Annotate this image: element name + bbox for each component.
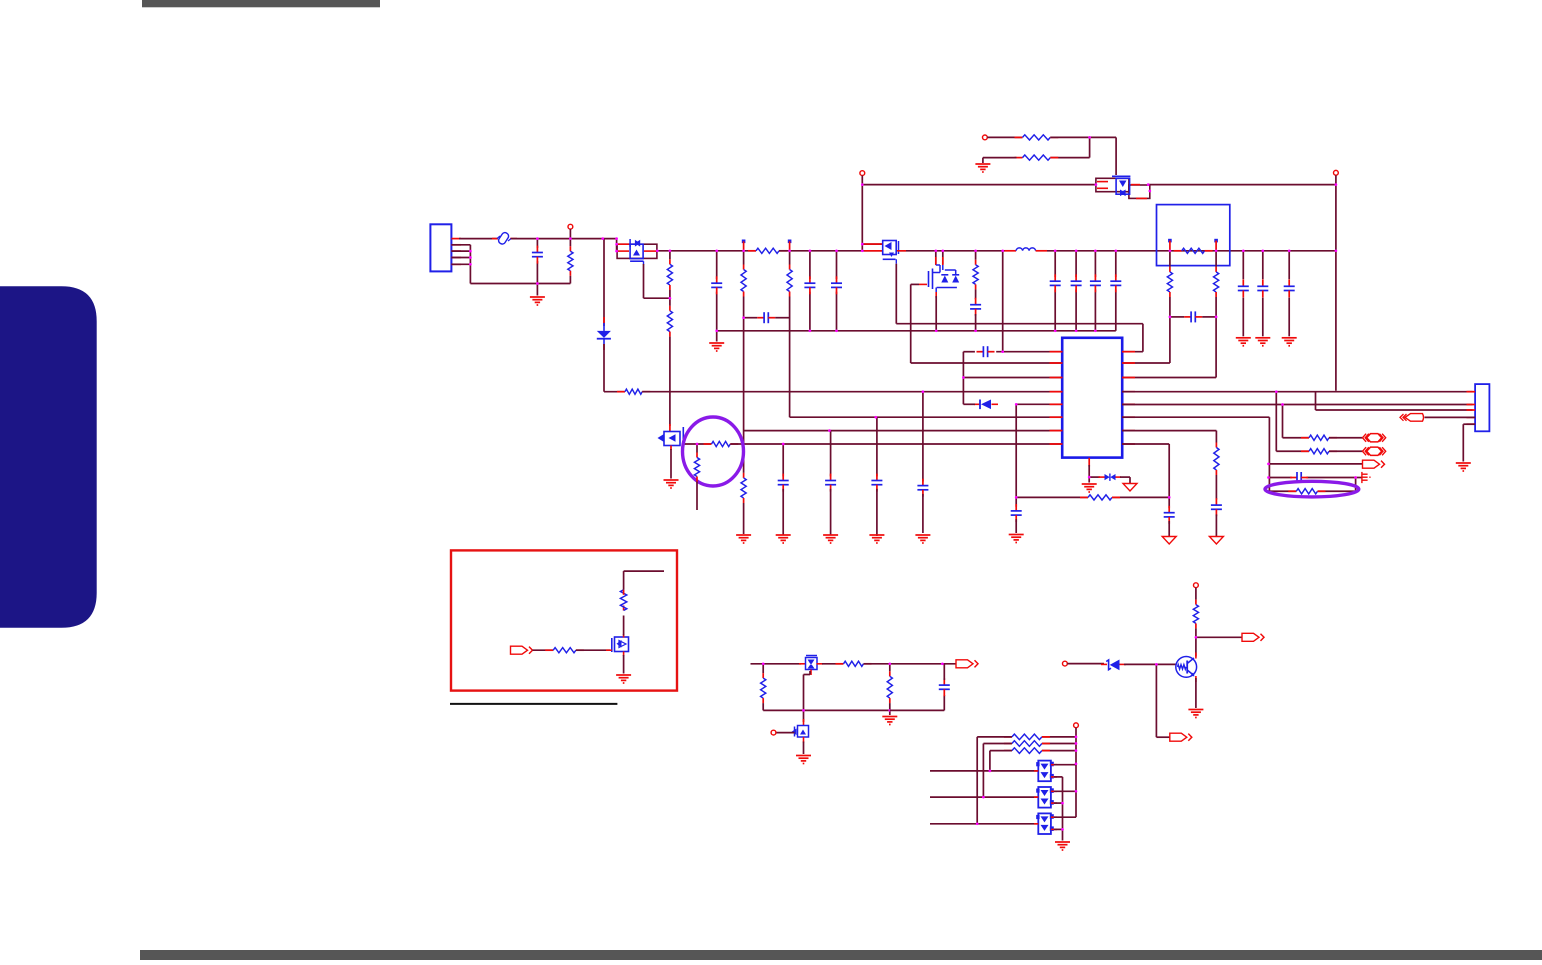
wire C6 gnd <box>876 489 878 536</box>
wire cap row C3 <box>744 317 790 319</box>
wire R25 right <box>1042 736 1076 738</box>
resistor R27 <box>1004 748 1050 754</box>
wire left vert link <box>962 352 964 405</box>
resistor R23 <box>761 673 766 703</box>
wire R30 top <box>624 571 664 590</box>
transistor Q11 dual pack <box>1034 813 1057 834</box>
wire main bus VCC segment C <box>900 250 1005 252</box>
wire R16 link <box>1050 137 1089 157</box>
wire C6 drop <box>876 417 878 476</box>
resistor R19 <box>1288 489 1325 494</box>
resistor R16 <box>1015 155 1059 160</box>
purple highlight circle <box>683 417 744 486</box>
wire zener to base <box>1124 663 1176 665</box>
wire R4net to connector pin1 <box>1122 391 1473 393</box>
wire R10 branch <box>696 444 698 453</box>
node dot B <box>788 240 792 244</box>
wire rail from Q5 <box>682 443 712 445</box>
purple highlight ellipse <box>1265 481 1359 497</box>
terminal circle T2 <box>860 171 865 176</box>
wire C5 drop <box>830 431 832 477</box>
ground at FET block <box>1055 842 1070 850</box>
transistor Q5 <box>658 424 684 450</box>
wire R28 to Q6 <box>1195 628 1197 656</box>
red highlight box <box>451 550 677 690</box>
IC U1 right pin stubs <box>1122 352 1135 444</box>
wire arrow to pin4 <box>1425 416 1476 418</box>
wire R27 left <box>990 750 1012 752</box>
wire C9 drop <box>836 251 838 331</box>
wire bottom return <box>470 283 570 285</box>
wire dotB stub <box>789 251 791 265</box>
ground at Q8 <box>796 756 811 764</box>
wire C4 gnd <box>782 489 784 535</box>
inductor L1 <box>1005 248 1048 251</box>
analog ground tri1 <box>1123 484 1137 492</box>
capacitor C6 <box>871 474 882 492</box>
ground at C6 <box>869 535 884 543</box>
wire J1 pins 2-5 bus <box>451 245 470 284</box>
wire Q8 drain <box>803 710 805 722</box>
terminal circle PWR <box>1074 723 1079 728</box>
wire dotC red stub <box>1169 241 1171 251</box>
ground below Q5 <box>664 480 679 488</box>
wire to IC R2 <box>1122 317 1170 363</box>
resistor R8 <box>741 473 746 503</box>
transistor Q12 N-FET <box>606 634 629 656</box>
ground at C1 <box>530 297 545 305</box>
wire C20 drop <box>1288 251 1290 336</box>
wire C7 gnd <box>922 494 924 533</box>
transistor Q2 P-FET <box>864 241 906 264</box>
wire to zener <box>1067 663 1104 665</box>
wire R15 to Q4 gate <box>1050 137 1116 175</box>
wire R8net right <box>1122 444 1169 497</box>
wire R12 chain down R <box>1215 251 1217 267</box>
wire D1 to VCC3 rail <box>604 344 625 392</box>
wire dotB red stub <box>789 241 791 251</box>
wire branch hexB <box>1276 392 1309 452</box>
capacitor C18 <box>1238 279 1249 297</box>
wire R5net to connector pin2 <box>1122 404 1473 406</box>
connector J2 <box>1475 384 1489 431</box>
wire Q5 source to ground <box>670 449 672 479</box>
capacitor C15 <box>1090 274 1101 292</box>
chassis ground symbol <box>1362 472 1371 483</box>
wire C22 to agnd <box>1215 514 1217 536</box>
capacitor C5 <box>825 474 836 492</box>
transistor Q9 dual pack <box>1034 761 1057 782</box>
junction dots group B <box>696 316 1218 499</box>
wire D2 left <box>963 403 975 405</box>
terminal VIN circle <box>568 224 573 229</box>
wire main bus VCC segment B <box>779 250 862 252</box>
wire Q1 gate <box>644 264 671 298</box>
resistor R17 <box>1301 435 1337 440</box>
wire R11 top <box>975 251 977 260</box>
wire reg input <box>751 663 802 665</box>
wire R24 gnd link <box>889 703 891 715</box>
wire C15 drop <box>1094 251 1096 331</box>
wire Q11 top pin <box>1054 816 1076 818</box>
wire R5 to Q5 <box>669 290 671 426</box>
wire Q3 tap2 <box>942 251 944 265</box>
wire C8 drop <box>809 251 811 331</box>
wire dotA red stub <box>743 241 745 251</box>
ground IC <box>1082 484 1097 492</box>
resistor R9 <box>704 441 739 446</box>
junction dots group C <box>762 390 1357 830</box>
wire R14 to caprow <box>1215 297 1217 317</box>
wire gate rail to IC <box>896 324 1143 352</box>
wire res row <box>1016 496 1169 498</box>
wire bus2 GND-side rail <box>717 330 1116 332</box>
wire main bus VCC segment D <box>1047 250 1336 252</box>
sense module box U2 <box>1157 205 1230 266</box>
capacitor C7 <box>917 479 928 497</box>
wire node FETIN down <box>603 239 605 326</box>
ground at R24 <box>882 717 897 725</box>
transistor Q10 dual pack <box>1034 787 1057 808</box>
node dot C <box>1168 239 1172 243</box>
wire branch pin3 <box>1316 392 1473 410</box>
connector J2 pin stubs <box>1467 392 1476 425</box>
wire C24 top <box>943 664 945 680</box>
wire pullup rail <box>1075 728 1077 818</box>
terminal flag VOUT <box>956 660 978 668</box>
wire gate feed rail <box>862 184 1336 186</box>
fuse F1 <box>492 231 517 245</box>
IC U1 <box>1062 338 1122 458</box>
wire input line 3 <box>930 823 1038 825</box>
resistor R26 <box>1004 741 1050 747</box>
resistor R25 <box>1004 734 1050 740</box>
wire R11 to C10 <box>975 289 977 299</box>
wire input line 1 <box>930 770 1038 772</box>
wire J1 pin1 to fuse <box>459 238 498 240</box>
wire rail AVDD <box>744 430 1063 432</box>
wire T3 down <box>1335 175 1337 391</box>
wire R10 tail <box>696 482 698 511</box>
resistor R3 inline bus <box>748 248 787 253</box>
ground at C20 <box>1282 338 1297 346</box>
ground at C4 <box>776 535 791 543</box>
wire T4 to R15 <box>987 136 1022 138</box>
wire fb node <box>804 709 890 711</box>
capacitor C4 <box>778 474 789 492</box>
zener diode D4 <box>1101 660 1126 671</box>
transistor Q4 dual pack <box>1096 176 1150 198</box>
top header bar <box>142 0 380 7</box>
wire Q7 drain down <box>804 671 811 710</box>
resistor R21 <box>1080 495 1120 500</box>
left side tab <box>0 286 97 627</box>
resistor R11 <box>973 260 978 290</box>
wire C12 gnd <box>1015 519 1017 533</box>
capacitor C20 <box>1284 279 1295 297</box>
resistor R7 <box>787 265 792 297</box>
resistor R18 <box>1301 449 1337 454</box>
capacitor C3 <box>757 312 775 323</box>
wire R13 to caprow <box>1169 297 1171 317</box>
wire C18 drop <box>1242 251 1244 336</box>
transistor Q6 digital <box>1176 653 1197 683</box>
wire Q9 bot pin <box>1054 777 1063 841</box>
wire TVS to agnd <box>1120 477 1130 483</box>
wire R7net right <box>1122 431 1216 443</box>
analog ground tri3 <box>1162 537 1176 545</box>
terminal flag EN <box>511 646 533 654</box>
capacitor C19 <box>1257 279 1268 297</box>
wire dotA stub <box>743 251 745 265</box>
ground at C19 <box>1255 338 1270 346</box>
wire C10 to bus2 <box>975 314 977 331</box>
connector J1 <box>430 224 451 271</box>
wire C4 drop <box>782 444 784 476</box>
wire C23 drop <box>1168 497 1170 508</box>
wire caprow C17 <box>1170 316 1216 318</box>
resistor R13 <box>1167 267 1172 297</box>
wire VCC3 rail <box>642 391 1062 393</box>
wire chassis stub <box>1356 477 1362 479</box>
wire T2 down <box>861 176 863 251</box>
capacitor C9 <box>831 276 842 294</box>
capacitor C21 <box>1290 472 1308 483</box>
wire Q10 top pin <box>1054 790 1076 792</box>
wire Q8 gate <box>776 732 795 734</box>
capacitor C8 <box>804 276 815 294</box>
TVS diode D3 <box>1099 474 1122 481</box>
wire reg out <box>864 663 957 665</box>
wire C23 to agnd <box>1168 521 1170 536</box>
capacitor C17 <box>1184 311 1202 322</box>
IC U1 left pin stubs <box>1050 352 1063 444</box>
wire caprow2 <box>1269 478 1355 492</box>
terminal flag SCL <box>1363 460 1385 468</box>
wire R12 chain down L <box>1169 251 1171 267</box>
wire Q3 source to bus2 <box>935 296 937 331</box>
black underline below red box <box>450 703 617 705</box>
wire C2 chain <box>716 251 718 342</box>
ground at C2 <box>709 343 724 351</box>
wire R6net right <box>1122 417 1269 491</box>
wire R20 to C22 <box>1215 475 1217 500</box>
wire R6 to cap row <box>743 297 745 318</box>
resistor R24 <box>887 671 892 703</box>
resistor R1 <box>568 246 573 275</box>
wire rail VREG <box>730 443 1062 445</box>
terminal circle BIN <box>1063 661 1068 666</box>
wire C13 drop <box>1054 251 1056 331</box>
wire cap C1 chain <box>536 239 538 296</box>
wire rail VDDA <box>790 416 1063 418</box>
capacitor C13 <box>1050 274 1061 292</box>
wire main bus VCC segment A <box>657 250 756 252</box>
wire R26 left <box>983 743 1012 745</box>
capacitor C11 <box>977 346 995 357</box>
wire Q12 drain up <box>623 616 625 636</box>
wire R26 drop <box>982 744 984 798</box>
node dot D <box>1214 239 1218 243</box>
connector J1 pin stubs <box>451 239 461 265</box>
capacitor C22 <box>1211 498 1222 516</box>
terminal hexA <box>1363 434 1386 442</box>
wire flag SCL <box>1269 463 1362 465</box>
resistor R12 sense <box>1174 248 1213 253</box>
ground at C12 <box>1009 535 1024 543</box>
wire C7 drop <box>922 392 924 482</box>
resistor R28 <box>1193 600 1198 629</box>
wire Q12 source <box>623 655 625 674</box>
wire R25 left <box>977 736 1012 738</box>
wire to IC R3 <box>1122 317 1216 378</box>
ground at R16 <box>975 164 990 172</box>
terminal circle T3 <box>1334 170 1339 175</box>
wire R29 to Q12 <box>576 649 610 651</box>
wire IC L3 <box>963 377 1062 379</box>
analog ground tri2 <box>1209 537 1223 545</box>
wire branch hexA <box>1283 405 1310 438</box>
ground at Q6 <box>1188 710 1203 718</box>
wire collector out <box>1196 636 1242 638</box>
wire R27 drop <box>989 751 991 771</box>
wire C19 drop <box>1262 251 1264 336</box>
terminal hexB <box>1363 447 1386 455</box>
capacitor C23 <box>1164 506 1175 524</box>
wire Q1 left jog <box>616 239 618 252</box>
wire IC gnd pin <box>1088 465 1090 483</box>
wire bus to pin cap <box>1002 251 1004 352</box>
wire R23 branch <box>762 664 764 673</box>
resistor R10 <box>694 453 699 482</box>
wire pin5 to ground <box>1463 424 1475 461</box>
capacitor C1 <box>532 246 543 264</box>
resistor R15 <box>1015 135 1059 140</box>
diode D2 <box>974 400 998 410</box>
junction dots group A <box>469 136 1337 300</box>
wire R8 to ground <box>743 503 745 534</box>
wire R18 to hexB <box>1329 450 1364 452</box>
wire Q2 left loop <box>862 244 882 251</box>
wire C14 drop <box>1075 251 1077 331</box>
terminal flag OUT2 <box>1170 733 1192 741</box>
wire fb to C24 <box>890 695 945 710</box>
wire Q9 top pin <box>1054 764 1076 766</box>
wire R24 branch <box>889 664 891 672</box>
capacitor C16 <box>1110 274 1121 292</box>
wire R25 drop <box>976 737 978 824</box>
wire to TVS <box>1089 476 1100 478</box>
wire input line 2 <box>930 796 1038 798</box>
wire emitter gnd <box>1195 678 1197 708</box>
ground at J2 <box>1456 463 1471 471</box>
capacitor C12 <box>1011 504 1022 522</box>
resistor R6 <box>741 265 746 297</box>
wire Q8 source gnd <box>803 742 805 755</box>
resistor R30 <box>620 590 626 611</box>
transistor Q7 P-FET <box>799 656 823 676</box>
wire EN to R29 <box>533 649 554 651</box>
node dot A <box>742 240 746 244</box>
terminal circle Q8 gate <box>771 730 776 735</box>
capacitor C14 <box>1071 274 1082 292</box>
footer bar <box>140 950 1542 960</box>
transistor Q8 N-FET <box>792 719 809 743</box>
terminal circle VQ6 <box>1194 583 1199 588</box>
resistor R20 <box>1214 443 1219 476</box>
resistor R2 <box>617 389 650 394</box>
wire C5 gnd <box>830 489 832 535</box>
wire Q3 tap1 <box>935 251 937 265</box>
resistor R22 <box>836 661 872 666</box>
capacitor C2 <box>711 276 722 294</box>
wire R1 bottom <box>569 276 571 284</box>
wire terminal stub <box>569 229 571 246</box>
terminal arrow IN <box>1400 414 1424 422</box>
resistor R5 <box>667 306 672 337</box>
capacitor C10 <box>970 298 981 316</box>
ground at Q12 <box>616 675 631 683</box>
wire Q10 bot pin <box>1054 802 1063 804</box>
wire x1016 down <box>1015 404 1017 507</box>
wire R17 to hexA <box>1329 437 1364 439</box>
wire R26 right <box>1042 743 1076 745</box>
diode D1 <box>597 317 611 350</box>
wire R27 right <box>1042 750 1076 752</box>
wire R4 top <box>669 251 671 259</box>
wire dotD red stub <box>1215 241 1217 251</box>
resistor R4 <box>667 259 672 290</box>
wire base branch <box>1156 664 1169 737</box>
ground below R8 <box>736 535 751 543</box>
wire IC L1 cap link <box>963 351 1062 353</box>
wire Q3 gate <box>911 284 1063 363</box>
wire R16 to ground <box>983 158 1017 163</box>
ground at C5 <box>823 535 838 543</box>
ground at C18 <box>1236 338 1251 346</box>
resistor R14 <box>1214 267 1219 297</box>
wire VQ6 down <box>1195 588 1197 600</box>
wire fuse to node FETIN <box>511 238 617 240</box>
wire reg mid <box>822 663 844 665</box>
transistor Q1 dual P-FET <box>617 239 657 265</box>
resistor R29 <box>545 648 584 653</box>
capacitor C24 <box>939 678 950 696</box>
wire ellipse row <box>1269 490 1355 492</box>
ground at C7 <box>915 535 930 543</box>
wire Q2 gate down <box>895 264 897 324</box>
terminal flag OUT1 <box>1242 633 1264 641</box>
wire C16 drop <box>1115 251 1117 331</box>
transistor Q3 with zeners <box>919 257 959 298</box>
wire R23 bottom <box>763 703 803 710</box>
junction fb <box>888 709 891 712</box>
wire Q11 bot pin <box>1054 828 1063 830</box>
wire R7 down <box>789 297 791 418</box>
wire x743 down <box>743 318 745 473</box>
wire IC L5 diode link <box>1016 403 1062 405</box>
terminal circle T4 <box>983 135 988 140</box>
IC U1 bottom pin stub <box>1088 458 1090 467</box>
